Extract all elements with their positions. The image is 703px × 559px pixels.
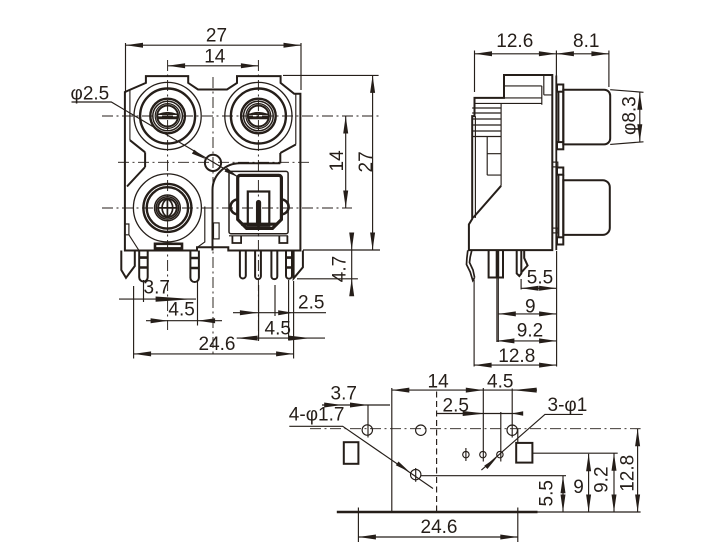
jack J3 ring r20.7 xyxy=(147,187,188,228)
dim 4.5R line xyxy=(237,337,325,339)
front chamfer J3 bottom-left xyxy=(129,235,139,251)
side inner box vertical xyxy=(486,137,488,176)
side barrel2 collar xyxy=(557,168,563,245)
dim 9.2 side text xyxy=(517,321,543,342)
svg-text:5.5: 5.5 xyxy=(537,480,558,506)
dim 4.5L text xyxy=(168,300,194,321)
jack J3 inner circle xyxy=(158,199,177,218)
dim 12.8 side arrows xyxy=(474,363,556,368)
pcb baseline extension xyxy=(538,511,641,513)
svg-text:4-φ1.7: 4-φ1.7 xyxy=(289,405,345,426)
pcb dim 5.5 line xyxy=(562,476,564,512)
leader phi2.5 line xyxy=(72,102,239,177)
pcb pad left xyxy=(344,442,359,464)
toslink bottom line xyxy=(229,235,288,237)
centerline horizontal top jacks xyxy=(102,115,379,117)
pcb dim 24.6 text xyxy=(421,517,458,538)
pcb dim 14 arrows xyxy=(392,388,484,393)
dim 24.6 line xyxy=(134,353,294,355)
hole s3 phi1 xyxy=(497,451,503,457)
leader 4-phi1.7 arrow xyxy=(396,462,410,472)
side right notch lower xyxy=(552,228,558,233)
toslink right ear xyxy=(281,200,288,215)
svg-text:5.5: 5.5 xyxy=(527,268,553,289)
front body left edge step xyxy=(125,224,129,235)
svg-text:4.5: 4.5 xyxy=(487,372,513,393)
dim 27 right line xyxy=(372,75,374,250)
pcb centerline dashed xyxy=(310,428,641,430)
svg-text:12.6: 12.6 xyxy=(496,31,533,52)
leader 4-phi1.7 line xyxy=(289,426,433,488)
centerline horizontal bottom row xyxy=(102,207,352,209)
front pin A xyxy=(139,251,148,282)
front inner wall right xyxy=(295,94,297,145)
jack J2 slot xyxy=(248,113,269,118)
optical recess left edge xyxy=(212,190,214,251)
hole c2 phi1.7 xyxy=(416,425,426,435)
front optical pin2 xyxy=(255,251,261,280)
dim 2.5 arrow left xyxy=(240,310,259,315)
dim phi8.3 extension top xyxy=(610,90,643,93)
dim 2.5 text xyxy=(298,293,324,314)
dim phi8.3 extension bottom xyxy=(610,142,643,145)
pcb 24.6 ext right xyxy=(517,508,519,543)
svg-text:3-φ1: 3-φ1 xyxy=(548,395,588,416)
hole s1 phi1 xyxy=(463,448,469,461)
jack J3 center lens xyxy=(162,199,173,218)
pcb dim 4.5 text xyxy=(487,372,513,393)
pcb dim 2.5 arrows xyxy=(463,411,524,416)
pcb dim 12.8 text xyxy=(618,455,639,492)
dim ext pinB xyxy=(197,281,199,326)
svg-text:3.7: 3.7 xyxy=(331,384,357,405)
svg-text:9: 9 xyxy=(525,297,536,318)
label phi2.5 text xyxy=(71,84,110,105)
dim 4.5R arrow right xyxy=(289,336,311,341)
svg-text:27: 27 xyxy=(206,25,227,46)
svg-text:4.5: 4.5 xyxy=(265,319,291,340)
jack J3 bottom foot xyxy=(155,244,182,249)
dim 2.5 line xyxy=(233,312,326,314)
svg-text:14: 14 xyxy=(204,46,226,67)
dim 4.5R arrow left xyxy=(237,336,258,341)
pcb dim line top xyxy=(392,389,537,391)
jack J1 ring r17.3 xyxy=(150,99,185,134)
hole phi2.5 xyxy=(205,155,221,171)
toslink left ear xyxy=(231,200,238,215)
svg-text:2.5: 2.5 xyxy=(298,293,324,314)
leader phi2.5 arrow mid xyxy=(192,150,206,160)
dim 5.5 text xyxy=(527,268,553,289)
svg-text:9.2: 9.2 xyxy=(591,466,612,492)
side pin2 xyxy=(517,250,528,276)
dim 8.1 line xyxy=(556,53,609,55)
dim 5.5 arrows xyxy=(521,286,557,291)
pcb dim 2.5 text xyxy=(443,396,469,417)
pcb c4 row line xyxy=(421,475,566,477)
dim 27 top line xyxy=(126,44,302,46)
svg-text:φ2.5: φ2.5 xyxy=(71,84,110,105)
side dim ext pin2 xyxy=(520,279,522,290)
hole c3 phi1.7 xyxy=(507,425,517,435)
dim 14 top line xyxy=(168,65,259,67)
side dim ext hook xyxy=(473,280,475,367)
front optical pin4 xyxy=(286,251,292,279)
dim phi8.3 arrows xyxy=(637,92,642,142)
dim 3.7 arrow xyxy=(156,297,194,302)
side tab inner lines xyxy=(504,75,552,95)
label 4-phi1.7 text xyxy=(289,405,345,426)
pcb vertical ext s3 xyxy=(500,412,502,462)
centerline vertical J1 xyxy=(167,60,169,330)
svg-text:9.2: 9.2 xyxy=(517,321,543,342)
pcb row line right xyxy=(532,452,617,454)
pcb dim 9.2 arrows xyxy=(612,453,617,512)
side dim ext pin1 left xyxy=(496,278,498,343)
centerline vertical middle xyxy=(212,77,214,357)
jack J1 ring r14.6 xyxy=(153,101,183,131)
dim 4.7 extension bottom xyxy=(297,278,358,280)
dim 9.2 side arrows xyxy=(497,338,557,343)
dim 12.6 extension left xyxy=(474,51,476,93)
side dim ext right xyxy=(556,251,558,367)
svg-text:4.7: 4.7 xyxy=(330,256,351,282)
dim 8.1 text xyxy=(573,31,599,52)
pcb dim 4.5 arrow xyxy=(513,388,537,393)
front mounting lug left xyxy=(121,251,135,278)
toslink outer rect xyxy=(229,171,288,233)
pcb dim 12.8 arrows xyxy=(635,429,640,512)
pcb pad right xyxy=(516,429,532,463)
dim 24.6 arrow left xyxy=(134,351,152,356)
jack J3 ring r24 xyxy=(143,184,191,232)
side right notch upper xyxy=(552,162,558,167)
dim 14 top text xyxy=(204,46,226,67)
jack J3 cross vertical xyxy=(166,198,168,217)
front left shoulder xyxy=(144,152,146,167)
dim 12.6 arrows xyxy=(475,51,557,56)
pcb dim 2.5 line xyxy=(437,413,522,415)
dim 8.1 arrows xyxy=(556,51,609,56)
pcb dim 3.7 arrows xyxy=(324,403,368,408)
side diagonal chamfer xyxy=(473,186,501,218)
side top band xyxy=(475,86,542,105)
dim 4.5R text xyxy=(265,319,291,340)
dim 27 right arrow bottom xyxy=(370,233,375,251)
front recess shoulder right xyxy=(279,153,281,163)
pcb dim 24.6 arrows xyxy=(358,535,517,540)
optical recess top edge xyxy=(240,162,280,164)
dim ext 24.6 left xyxy=(133,286,135,359)
dim 2.5 arrow right xyxy=(278,310,293,315)
dim 5.5 line xyxy=(521,287,557,289)
jack J1 ring r27.5 xyxy=(140,89,195,144)
pcb 24.6 ext left xyxy=(357,508,359,543)
front chamfer J2 bottom-right xyxy=(280,145,296,154)
side barrel2 xyxy=(563,180,610,235)
jack J1 outer circle xyxy=(134,82,201,149)
pcb vertical ref left xyxy=(391,388,393,512)
dim 3.7 text xyxy=(144,278,170,299)
dim 4.5L arrow left xyxy=(151,318,169,323)
dim 9 side line xyxy=(498,313,556,315)
jack J3 cross horizontal xyxy=(158,207,177,209)
side left inner edge xyxy=(474,116,476,218)
front pin A ticks xyxy=(139,258,148,268)
front mounting lug right xyxy=(294,251,303,279)
hole s2 phi1 xyxy=(480,451,486,457)
pcb dim 9.2 line xyxy=(613,453,615,512)
leader 3-phi1 arrow xyxy=(484,457,497,469)
jack J2 inner circle xyxy=(248,106,269,127)
svg-text:27: 27 xyxy=(356,151,377,172)
front view body outline xyxy=(125,76,301,250)
jack J1 inner circle xyxy=(157,106,178,127)
dim 4.7 arrow top xyxy=(349,233,354,251)
dim 14 right line xyxy=(345,116,347,208)
dim 24.6 text xyxy=(199,334,236,355)
svg-text:24.6: 24.6 xyxy=(421,517,458,538)
pcb dim 3.7 text xyxy=(331,384,357,405)
dim 27 top text xyxy=(206,25,227,46)
toslink main box xyxy=(238,175,282,228)
jack J3 ring r12.9 xyxy=(155,195,181,221)
dim 27 right extension top xyxy=(283,74,379,76)
dim 9.2 side line xyxy=(497,340,557,342)
dim 12.6 line xyxy=(475,53,557,55)
svg-text:14: 14 xyxy=(327,150,348,172)
dim 14 right arrow bottom xyxy=(343,191,348,209)
jack J2 ring r12.5 xyxy=(246,104,271,129)
leader phi2.5 arrow end xyxy=(225,168,239,178)
dim 4.7 extension top xyxy=(303,249,380,251)
svg-text:12.8: 12.8 xyxy=(498,346,535,367)
dim 4.7 line xyxy=(351,233,353,295)
dim 4.7 arrow bottom xyxy=(349,279,354,297)
front chamfer J3 top-left xyxy=(127,167,145,187)
toslink center bar xyxy=(256,203,261,225)
dim ext 24.6 right xyxy=(293,281,295,359)
optical recess left box xyxy=(214,223,220,239)
dim 4.5L arrow right xyxy=(198,318,216,323)
pcb hidden line vertical xyxy=(436,392,438,513)
dim 4.7 text xyxy=(330,256,351,282)
svg-text:9: 9 xyxy=(573,477,584,498)
optical recess corner arc xyxy=(213,163,241,190)
jack J1 slot xyxy=(157,113,178,118)
dim ext optical pin4 xyxy=(288,280,290,341)
pcb dim 9 text xyxy=(573,477,584,498)
side hook leg xyxy=(467,250,475,280)
front optical pin1 xyxy=(240,251,246,279)
pcb dim 24.6 line xyxy=(358,536,517,538)
pcb vertical ext c3 xyxy=(511,389,513,438)
centerline horizontal hole xyxy=(118,161,312,163)
hole c4 phi1.7 xyxy=(411,468,421,482)
dim 27 top extension right xyxy=(300,43,302,90)
side left stack lines xyxy=(472,108,501,137)
pcb dim 9 arrows xyxy=(586,454,591,512)
jack J2 outer circle xyxy=(225,82,292,149)
toslink shelf xyxy=(241,223,277,226)
dim 27 top arrow left xyxy=(126,43,144,48)
svg-text:14: 14 xyxy=(428,372,450,393)
pcb dim 14 text xyxy=(428,372,450,393)
dim 27 right arrow top xyxy=(370,75,375,93)
toslink foot left xyxy=(232,236,241,243)
side barrel1 collar xyxy=(557,85,563,150)
pcb baseline xyxy=(337,511,538,513)
dim 12.6 text xyxy=(496,31,533,52)
side body right inner edge xyxy=(555,76,557,251)
side dim ext pin1 right xyxy=(497,278,499,343)
front inner wall left xyxy=(129,91,131,141)
dim 14 top arrow right xyxy=(241,63,259,68)
jack J2 ring r14.8 xyxy=(244,101,274,131)
svg-text:3.7: 3.7 xyxy=(144,278,170,299)
pcb dim 9.2 text xyxy=(591,466,612,492)
jack J3 outer circle xyxy=(133,174,201,242)
side pin1 xyxy=(489,250,503,277)
front optical pin4 ticks xyxy=(286,258,292,268)
side barrel1 xyxy=(563,90,610,145)
toslink foot right xyxy=(279,236,287,243)
dim 8.1 extension right xyxy=(608,51,610,88)
front optical pin3 xyxy=(271,251,277,280)
dim 14 top arrow left xyxy=(168,63,186,68)
dim 27 top extension left xyxy=(125,43,127,93)
dim 27 right text xyxy=(356,151,377,172)
dim ext pinA center xyxy=(143,280,145,302)
svg-text:4.5: 4.5 xyxy=(168,300,194,321)
pcb dim 9 line xyxy=(588,454,590,512)
pcb dim 5.5 text xyxy=(537,480,558,506)
dim 12.6 extension mid xyxy=(555,51,557,83)
svg-text:12.8: 12.8 xyxy=(618,455,639,492)
label 3-phi1 text xyxy=(548,395,588,416)
dim 27 top arrow right xyxy=(284,43,302,48)
dim 12.8 side text xyxy=(498,346,535,367)
dim 14 right arrow top xyxy=(343,116,348,134)
jack J3 right side xyxy=(198,207,205,248)
pcb vertical ext s2 xyxy=(482,388,484,462)
jack J2 ring r27.5 xyxy=(231,89,286,144)
side inner vertical xyxy=(500,103,502,185)
svg-text:2.5: 2.5 xyxy=(443,396,469,417)
toslink inner box xyxy=(248,192,269,226)
side body outline xyxy=(469,75,552,250)
jack J1 ring r12.5 xyxy=(155,104,180,129)
dim 14 right text xyxy=(327,150,348,172)
leader 3-phi1 line xyxy=(481,414,582,470)
centerline vertical J2 xyxy=(257,60,259,341)
pcb vertical ext c1 xyxy=(367,405,369,438)
dim 4.5L line xyxy=(146,320,222,322)
dim 12.8 side line xyxy=(474,364,556,366)
front pin B xyxy=(190,251,199,283)
pcb dim 12.8 line xyxy=(637,429,639,512)
svg-text:φ8.3: φ8.3 xyxy=(620,96,641,135)
pcb dim 5.5 arrows xyxy=(561,476,566,512)
hole c1 phi1.7 xyxy=(362,425,372,435)
front chamfer J1 bottom-left xyxy=(130,140,145,152)
jack J3 ring r11.2 xyxy=(156,197,178,219)
side inner box lines xyxy=(487,154,501,175)
front pin B ticks xyxy=(190,258,199,268)
dim 24.6 arrow right xyxy=(276,351,294,356)
dim 9 side arrows xyxy=(498,311,556,316)
jack J2 ring r17.3 xyxy=(241,99,276,134)
dim 9 side text xyxy=(525,297,536,318)
dim ext optical pin2 xyxy=(258,285,260,341)
svg-text:8.1: 8.1 xyxy=(573,31,599,52)
dim 3.7 line xyxy=(119,298,196,300)
pcb dim 3.7 line xyxy=(322,404,390,406)
dim ext optical pin3 xyxy=(274,285,276,316)
dim phi8.3 text xyxy=(620,96,641,135)
svg-text:24.6: 24.6 xyxy=(199,334,236,355)
dim phi8.3 line xyxy=(639,92,641,142)
